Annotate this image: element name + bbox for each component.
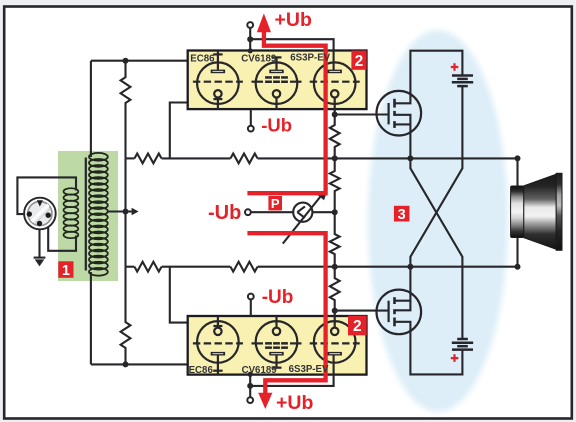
bus between rows: [124, 158, 126, 266]
wire secondary top stub: [90, 61, 92, 157]
svg-text:EC86: EC86: [190, 53, 215, 64]
label 2 (upper tube module): [351, 51, 366, 70]
red signal path (upper): [247, 30, 325, 194]
svg-text:1: 1: [62, 263, 70, 279]
svg-text:CV6189: CV6189: [241, 53, 277, 64]
center tap arrow: [126, 210, 132, 212]
label P (potentiometer): [268, 196, 282, 210]
red signal path (lower): [247, 233, 325, 393]
transformer T1 core: [85, 158, 87, 271]
svg-text:EC86: EC86: [189, 365, 214, 376]
wire DIN left pin to primary top: [17, 177, 76, 214]
potentiometer P: [293, 203, 312, 222]
label 2 (lower tube module): [348, 316, 367, 336]
svg-text:-Ub: -Ub: [262, 287, 294, 308]
wire secondary bottom stub: [90, 272, 92, 364]
svg-text:CV6189: CV6189: [242, 365, 278, 376]
wire potentiometer to bus: [299, 211, 335, 213]
green transformer background box: [58, 151, 118, 281]
svg-text:-Ub: -Ub: [261, 115, 292, 136]
svg-text:+Ub: +Ub: [276, 392, 313, 414]
svg-text:6S3P-EV: 6S3P-EV: [289, 364, 329, 375]
loudspeaker LS1: [511, 186, 524, 238]
lower half of symmetric circuit (mirrored): [91, 87, 521, 403]
svg-text:2: 2: [355, 53, 364, 70]
svg-text:-Ub: -Ub: [208, 202, 241, 224]
blue region 3 background ellipse: [368, 30, 508, 412]
svg-text:P: P: [271, 196, 280, 211]
label 3 (output stage): [394, 206, 410, 222]
label 1 (input transformer): [58, 261, 73, 278]
wire DIN right pin to primary bottom: [48, 215, 76, 251]
DIN connector X1: [24, 198, 56, 230]
ground symbol: [34, 257, 46, 259]
wire DIN shield to ground: [38, 224, 40, 258]
svg-text:6S3P-EV: 6S3P-EV: [290, 53, 330, 64]
transformer T1 secondary coil: [89, 153, 108, 161]
transformer T1 primary coil: [64, 188, 79, 195]
svg-text:+Ub: +Ub: [275, 9, 312, 31]
svg-text:2: 2: [353, 318, 362, 335]
svg-text:3: 3: [398, 207, 406, 223]
wire -Ub to potentiometer: [251, 211, 293, 213]
wire secondary center tap: [108, 210, 126, 212]
upper half of symmetric circuit: [91, 22, 521, 338]
